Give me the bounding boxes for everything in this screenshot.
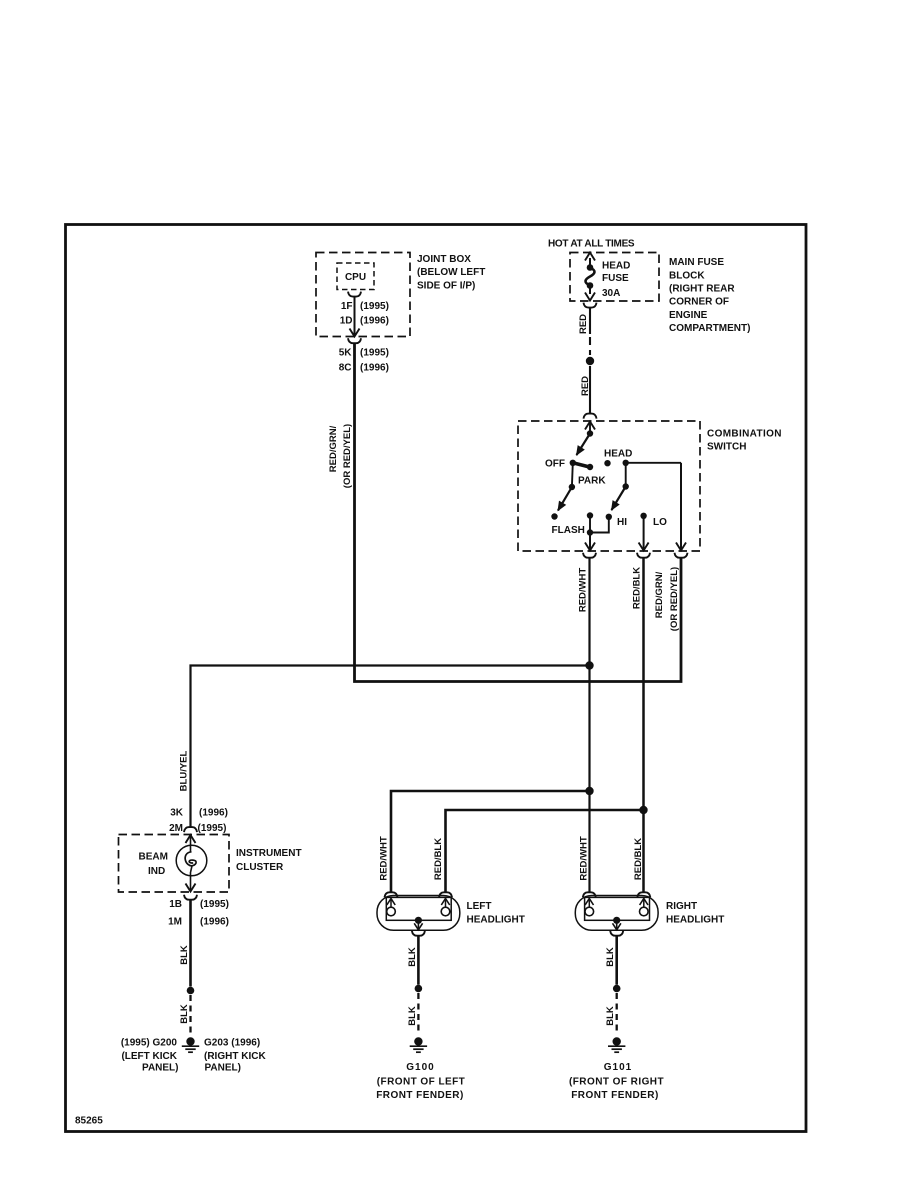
- svg-text:CORNER OF: CORNER OF: [669, 297, 729, 308]
- wire to beam indicator: [191, 666, 590, 828]
- wire label RED/BLK (right): [633, 838, 644, 880]
- label G203: [204, 1038, 260, 1049]
- label BEAM IND: [139, 852, 168, 878]
- fuse F1 HEAD FUSE 30A: [585, 253, 595, 301]
- label G101: [569, 1062, 664, 1101]
- pin note (1995): [198, 823, 227, 834]
- svg-text:(1995): (1995): [198, 823, 227, 834]
- wire dimmer down: [625, 463, 627, 487]
- node splice RED/WHT to beam indicator: [585, 661, 593, 669]
- label MAIN FUSE BLOCK: [669, 257, 750, 334]
- node dimmer feed: [623, 460, 629, 466]
- wire HI to left headlight: [391, 791, 590, 892]
- svg-text:RED/WHT: RED/WHT: [379, 836, 390, 881]
- beam indicator bulb: [176, 845, 207, 876]
- lighting switch wiper: [573, 463, 593, 470]
- svg-text:BLK: BLK: [605, 947, 616, 967]
- svg-text:G100: G100: [406, 1062, 434, 1073]
- svg-text:8C: 8C: [339, 363, 352, 374]
- label HOT AT ALL TIMES: [548, 239, 635, 250]
- svg-text:1B: 1B: [169, 899, 182, 910]
- right headlight bulb body: [585, 897, 650, 920]
- right headlight assembly: [575, 892, 724, 1035]
- svg-text:1M: 1M: [168, 917, 182, 928]
- svg-text:1D: 1D: [340, 316, 353, 327]
- svg-text:PANEL): PANEL): [142, 1063, 178, 1074]
- wire RED/GRN joint box to combination switch: [355, 344, 682, 682]
- svg-text:(LEFT KICK: (LEFT KICK: [121, 1051, 177, 1062]
- node HI contact: [606, 514, 612, 520]
- svg-text:BLK: BLK: [407, 1006, 418, 1026]
- svg-text:(BELOW LEFT: (BELOW LEFT: [417, 267, 485, 278]
- label INSTRUMENT CLUSTER: [236, 848, 302, 873]
- ground G100: [410, 1037, 427, 1052]
- wire label RED: [580, 376, 591, 396]
- cluster output pin arrow: [186, 866, 196, 892]
- svg-text:RED/GRN/: RED/GRN/: [328, 425, 339, 472]
- LO filament terminal: [441, 899, 449, 906]
- pin 5K: [339, 348, 353, 359]
- wire RED dashed portion: [589, 337, 591, 355]
- svg-text:3K: 3K: [170, 808, 184, 819]
- label LO: [653, 517, 667, 528]
- ground G200/G203: [182, 1037, 199, 1052]
- connector below switch (RED/BLK): [637, 553, 650, 558]
- wire LO output down: [639, 516, 649, 551]
- svg-text:RED/WHT: RED/WHT: [579, 836, 590, 881]
- label HI: [617, 517, 627, 528]
- svg-text:85265: 85265: [75, 1116, 103, 1127]
- svg-text:MAIN FUSE: MAIN FUSE: [669, 257, 724, 268]
- svg-text:BLK: BLK: [179, 945, 190, 965]
- svg-text:BLK: BLK: [605, 1006, 616, 1026]
- svg-text:BLK: BLK: [407, 947, 418, 967]
- diagram number 85265: [75, 1116, 103, 1127]
- svg-text:SWITCH: SWITCH: [707, 441, 746, 452]
- ground pin arrow: [417, 920, 419, 930]
- pin note (1996): [360, 316, 389, 327]
- CPU module box: [337, 263, 374, 290]
- wire LO to left headlight: [446, 810, 644, 892]
- left headlight bulb body: [386, 897, 451, 920]
- connector above combination switch: [584, 414, 597, 419]
- HI filament terminal: [387, 899, 395, 906]
- pin note (1995): [360, 301, 389, 312]
- left headlight housing: [377, 896, 460, 931]
- node flash output upper: [587, 512, 593, 518]
- svg-text:G101: G101: [604, 1062, 632, 1073]
- node splice RED/BLK to left headlight: [639, 806, 647, 814]
- svg-text:HEAD: HEAD: [602, 261, 630, 272]
- svg-text:COMPARTMENT): COMPARTMENT): [669, 323, 750, 334]
- svg-text:HOT AT ALL TIMES: HOT AT ALL TIMES: [548, 239, 635, 250]
- combination switch (dashed enclosure): [518, 421, 700, 551]
- wire HEAD output across: [626, 462, 681, 464]
- svg-text:PANEL): PANEL): [205, 1063, 241, 1074]
- svg-text:CPU: CPU: [345, 272, 366, 283]
- svg-text:RED: RED: [580, 376, 591, 396]
- svg-text:SIDE OF I/P): SIDE OF I/P): [417, 280, 475, 291]
- label PARK: [578, 476, 606, 487]
- splice S1: [586, 357, 594, 365]
- wire BLK below right: [615, 936, 618, 985]
- svg-text:BEAM: BEAM: [139, 852, 168, 863]
- svg-text:LO: LO: [653, 517, 667, 528]
- pin note (1995): [360, 348, 389, 359]
- wire CPU to joint box edge: [350, 297, 360, 337]
- ground G101: [608, 1037, 625, 1052]
- dimmer lever: [612, 487, 626, 511]
- wire BLK dashed to ground: [417, 993, 419, 1035]
- wire RED/WHT main: [588, 559, 590, 893]
- node LO contact: [640, 513, 646, 519]
- svg-text:RED: RED: [578, 314, 589, 334]
- svg-text:(OR RED/YEL): (OR RED/YEL): [342, 424, 353, 488]
- wire label RED/WHT: [578, 568, 589, 613]
- wire pivot down: [571, 463, 574, 487]
- cluster input pin arrow: [186, 835, 196, 846]
- pin note (1996): [199, 808, 228, 819]
- pin 1F: [341, 301, 353, 312]
- connector above left HI terminal: [385, 892, 398, 897]
- svg-text:FLASH: FLASH: [552, 525, 585, 536]
- label FLASH: [552, 525, 585, 536]
- label HEAD FUSE 30A: [602, 261, 630, 300]
- HI filament terminal: [585, 899, 593, 906]
- flash lever: [558, 487, 572, 511]
- connector above instrument cluster: [184, 827, 197, 832]
- svg-text:(RIGHT REAR: (RIGHT REAR: [669, 284, 735, 295]
- connector above left LO terminal: [439, 892, 452, 897]
- wire RED/BLK main: [642, 559, 645, 893]
- joint box (dashed enclosure): [316, 253, 410, 337]
- node splice RED/WHT to left headlight: [585, 787, 593, 795]
- node switch input: [587, 430, 593, 436]
- svg-text:BLOCK: BLOCK: [669, 271, 705, 282]
- main fuse block (dashed enclosure): [570, 253, 659, 302]
- wire label RED: [578, 314, 589, 334]
- wire label RED/BLK: [632, 567, 643, 609]
- instrument cluster (dashed enclosure): [119, 835, 230, 893]
- svg-text:30A: 30A: [602, 288, 620, 299]
- svg-text:1F: 1F: [341, 301, 353, 312]
- label G200: [121, 1038, 178, 1049]
- svg-text:OFF: OFF: [545, 459, 565, 470]
- svg-text:INSTRUMENT: INSTRUMENT: [236, 848, 302, 859]
- svg-text:RED/BLK: RED/BLK: [632, 567, 643, 609]
- svg-text:G203 (1996): G203 (1996): [204, 1038, 260, 1049]
- node splice BLK: [187, 987, 195, 995]
- node OFF pivot: [570, 460, 576, 466]
- ground terminal node: [415, 917, 422, 924]
- svg-text:JOINT BOX: JOINT BOX: [417, 254, 471, 265]
- node flash output lower: [587, 529, 593, 535]
- connector below right: [610, 931, 623, 936]
- svg-text:(OR RED/YEL): (OR RED/YEL): [669, 567, 680, 631]
- wire label BLK: [179, 945, 190, 965]
- right headlight housing: [575, 896, 658, 931]
- lighting switch lever (to OFF): [577, 434, 591, 456]
- svg-text:(FRONT OF LEFT: (FRONT OF LEFT: [377, 1077, 466, 1088]
- node splice BLK: [415, 985, 423, 993]
- wire BLK dashed to ground: [189, 995, 191, 1035]
- connector below joint box: [348, 338, 361, 343]
- label OFF: [545, 459, 565, 470]
- wire BLK from cluster: [189, 900, 192, 987]
- pin 3K: [170, 808, 184, 819]
- svg-text:(RIGHT KICK: (RIGHT KICK: [204, 1051, 266, 1062]
- wire label (OR RED/YEL): [669, 567, 680, 631]
- svg-text:5K: 5K: [339, 348, 353, 359]
- svg-text:HEADLIGHT: HEADLIGHT: [666, 914, 724, 925]
- border frame: [66, 225, 807, 1132]
- svg-text:(1996): (1996): [360, 363, 389, 374]
- wire label RED/GRN/: [328, 425, 339, 472]
- svg-text:HI: HI: [617, 517, 627, 528]
- node dimmer pivot: [623, 483, 629, 489]
- svg-text:RED/GRN/: RED/GRN/: [654, 571, 665, 618]
- switch input pin arrow: [585, 422, 595, 434]
- wire BLK below left: [417, 936, 420, 985]
- svg-text:PARK: PARK: [578, 476, 606, 487]
- left headlight assembly: [377, 892, 525, 1035]
- wire flash-HI link: [590, 516, 609, 533]
- svg-text:RED/WHT: RED/WHT: [578, 568, 589, 613]
- label G100: [376, 1062, 465, 1101]
- wire RED upper segment: [589, 308, 591, 334]
- pin 8C: [339, 363, 352, 374]
- wire HEAD output down: [676, 463, 686, 551]
- svg-text:(1995): (1995): [360, 348, 389, 359]
- wire label BLU/YEL: [179, 750, 190, 791]
- svg-text:RIGHT: RIGHT: [666, 901, 697, 912]
- svg-text:(1996): (1996): [200, 917, 229, 928]
- svg-text:FRONT FENDER): FRONT FENDER): [376, 1090, 464, 1101]
- svg-text:BLK: BLK: [179, 1004, 190, 1024]
- wire RED lower segment: [589, 366, 591, 414]
- svg-text:(1995): (1995): [200, 899, 229, 910]
- label JOINT BOX: [417, 254, 485, 291]
- connector below switch (RED/GRN): [675, 553, 688, 558]
- svg-text:COMBINATION: COMBINATION: [707, 429, 782, 440]
- label G203 location: [204, 1051, 266, 1074]
- wire HI output down: [585, 533, 595, 551]
- label COMBINATION SWITCH: [707, 429, 782, 453]
- wire label RED/BLK (left): [433, 838, 444, 880]
- svg-text:HEADLIGHT: HEADLIGHT: [467, 914, 525, 925]
- svg-text:(1996): (1996): [199, 808, 228, 819]
- node FLASH contact: [551, 513, 557, 519]
- pin note (1996): [360, 363, 389, 374]
- connector below switch (RED/WHT): [583, 553, 596, 558]
- node HEAD contact: [604, 460, 610, 466]
- label CPU: [345, 272, 366, 283]
- ground pin arrow: [616, 920, 618, 930]
- label G200 location: [121, 1051, 178, 1074]
- connector above right LO terminal: [637, 892, 650, 897]
- wire label (OR RED/YEL): [342, 424, 353, 488]
- wire label RED/WHT (left): [379, 836, 390, 881]
- svg-text:RED/BLK: RED/BLK: [633, 838, 644, 880]
- pin 1D: [340, 316, 353, 327]
- node splice BLK: [613, 985, 621, 993]
- pin 1B: [169, 899, 182, 910]
- connector below CPU: [348, 292, 361, 297]
- connector below left: [412, 931, 425, 936]
- label HEAD: [604, 448, 632, 459]
- node flash pivot: [569, 484, 575, 490]
- connector below instrument cluster: [184, 895, 197, 900]
- wire label BLK: [179, 1004, 190, 1024]
- pin 1M: [168, 917, 182, 928]
- svg-text:(1996): (1996): [360, 316, 389, 327]
- svg-text:RED/BLK: RED/BLK: [433, 838, 444, 880]
- svg-text:ENGINE: ENGINE: [669, 310, 708, 321]
- svg-text:(1995): (1995): [360, 301, 389, 312]
- wire BLK dashed to ground: [616, 993, 618, 1035]
- svg-text:(FRONT OF RIGHT: (FRONT OF RIGHT: [569, 1077, 664, 1088]
- svg-text:FRONT FENDER): FRONT FENDER): [571, 1090, 659, 1101]
- svg-text:IND: IND: [148, 866, 165, 877]
- ground terminal node: [613, 917, 620, 924]
- connector above right HI terminal: [583, 892, 596, 897]
- svg-text:HEAD: HEAD: [604, 448, 632, 459]
- svg-text:FUSE: FUSE: [602, 273, 629, 284]
- svg-text:CLUSTER: CLUSTER: [236, 862, 284, 873]
- pin note (1996): [200, 917, 229, 928]
- svg-text:LEFT: LEFT: [467, 901, 492, 912]
- pin 2M: [169, 823, 183, 834]
- wire label RED/GRN/: [654, 571, 665, 618]
- pin note (1995): [200, 899, 229, 910]
- connector below fuse block: [584, 303, 597, 308]
- LO filament terminal: [640, 899, 648, 906]
- svg-text:(1995) G200: (1995) G200: [121, 1038, 178, 1049]
- wire label RED/WHT (right): [579, 836, 590, 881]
- svg-text:BLU/YEL: BLU/YEL: [179, 750, 190, 791]
- svg-text:2M: 2M: [169, 823, 183, 834]
